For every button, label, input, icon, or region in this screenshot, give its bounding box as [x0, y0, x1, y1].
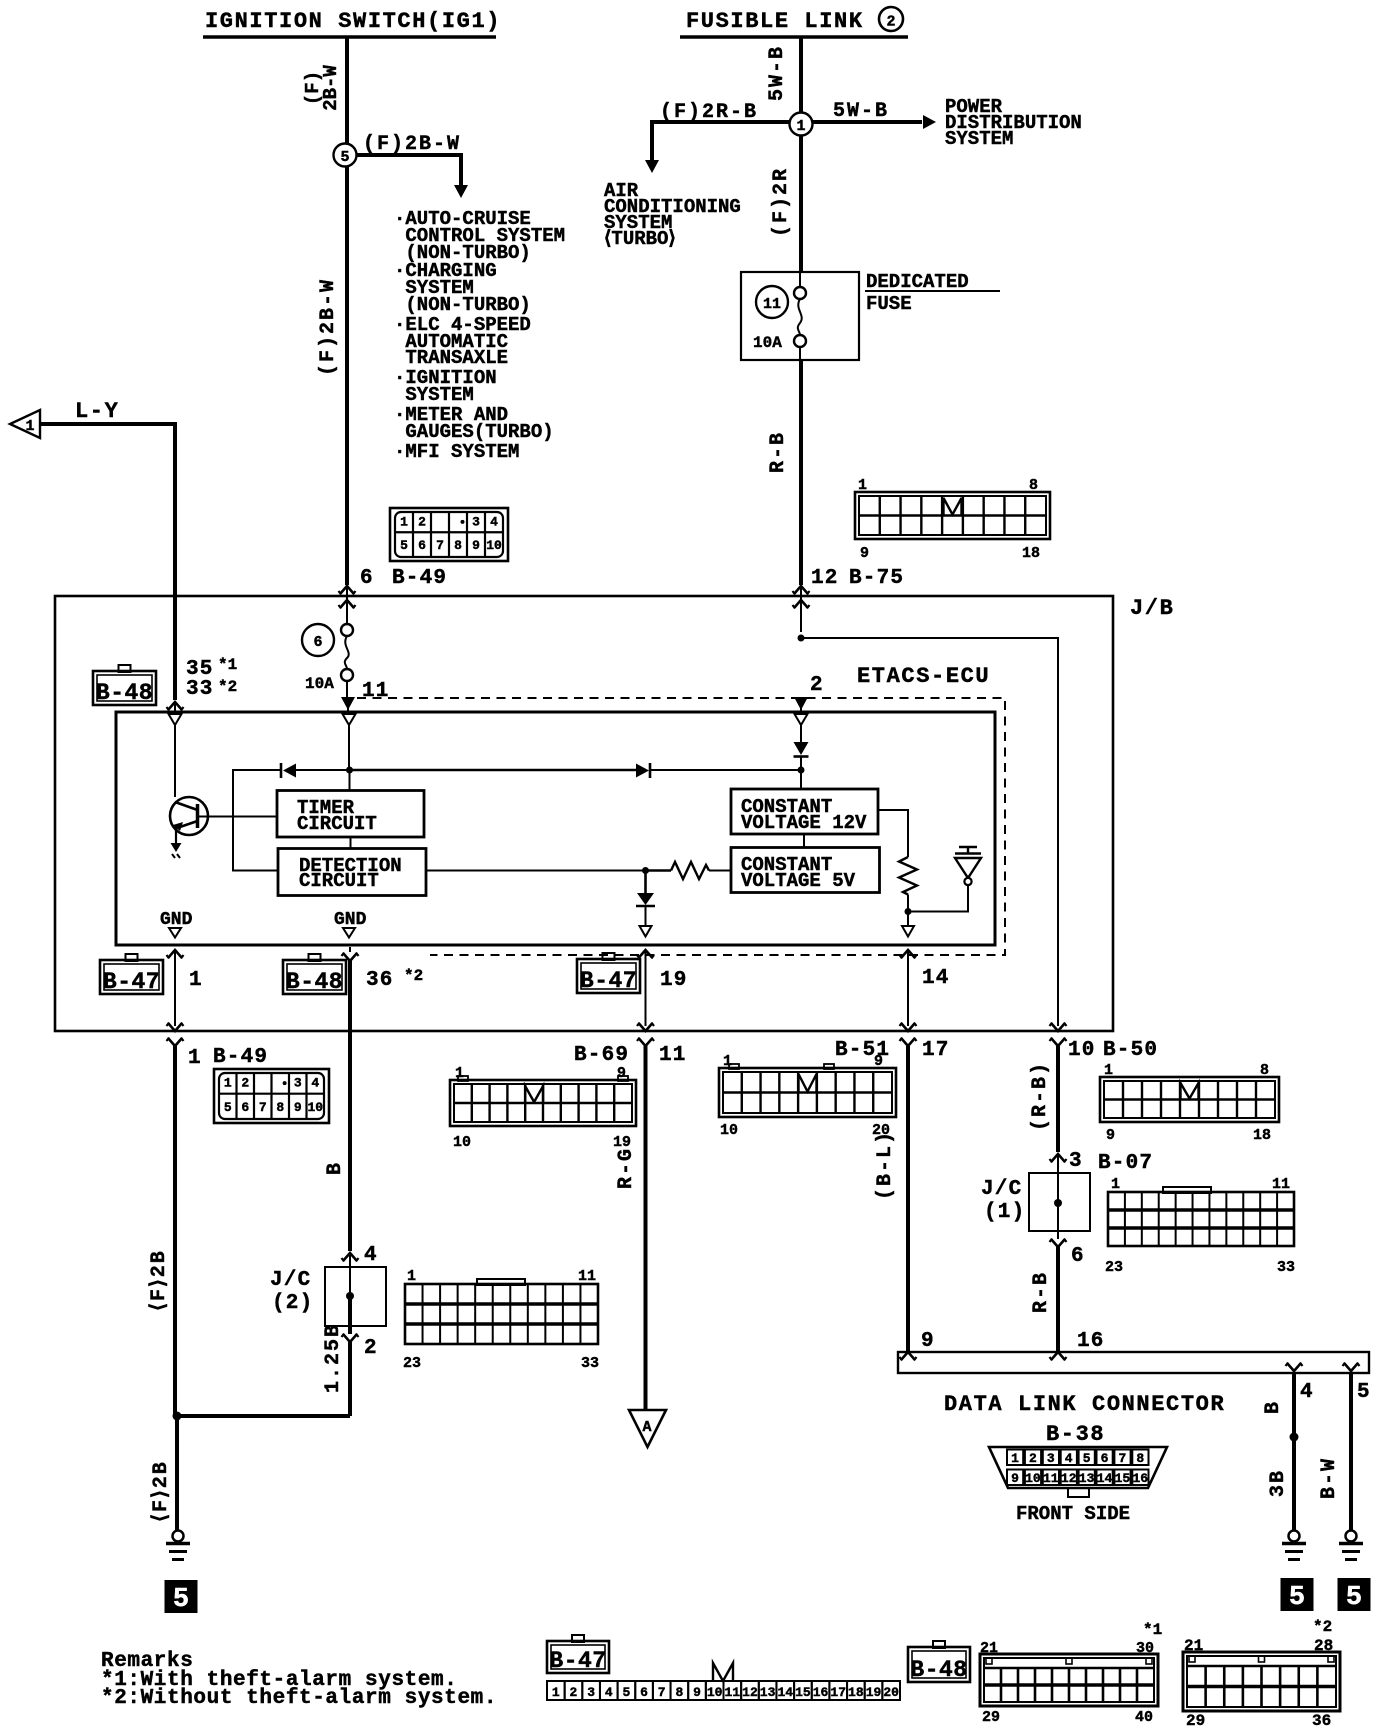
svg-text:8: 8	[1136, 1451, 1144, 1466]
node IGNITION SWITCH(IG1)	[203, 9, 501, 37]
label <F>2B vertical 2	[150, 1460, 173, 1522]
ground icon B-47 left	[100, 954, 163, 995]
svg-text:SYSTEM: SYSTEM	[945, 128, 1013, 150]
svg-text:4: 4	[364, 1244, 378, 1267]
svg-text:L-Y: L-Y	[75, 399, 119, 424]
svg-text:15: 15	[795, 1685, 811, 1700]
pin labels B-51	[720, 1053, 890, 1139]
svg-text:B-47: B-47	[103, 969, 160, 995]
svg-text:·MFI SYSTEM: ·MFI SYSTEM	[394, 441, 519, 463]
label system list	[394, 208, 565, 463]
svg-text:40: 40	[1135, 1709, 1153, 1726]
svg-text:⟨F⟩2B: ⟨F⟩2B	[148, 1249, 171, 1311]
wire R-B	[799, 360, 803, 585]
pin labels B-07	[1105, 1176, 1295, 1276]
svg-text:2: 2	[810, 674, 824, 697]
svg-text:11: 11	[763, 296, 781, 313]
svg-text:8: 8	[1260, 1062, 1269, 1079]
transistor Q1	[170, 797, 277, 858]
svg-text:7: 7	[658, 1685, 666, 1700]
svg-text:B-69: B-69	[574, 1044, 629, 1067]
detection circuit box	[278, 849, 426, 896]
ETACS-ECU inner box	[116, 712, 995, 945]
svg-text:9: 9	[860, 545, 869, 562]
svg-text:19: 19	[660, 969, 688, 992]
label 6 B-49	[360, 567, 447, 590]
svg-text:(2): (2)	[272, 1292, 313, 1315]
label pin 35/33	[186, 656, 237, 701]
svg-text:B-W: B-W	[1318, 1457, 1341, 1499]
svg-text:12: 12	[1061, 1471, 1077, 1486]
label pin 11	[362, 680, 390, 703]
svg-text:29: 29	[1186, 1712, 1205, 1730]
svg-text:5: 5	[1346, 1583, 1362, 1613]
terminal 5 DLC	[1343, 1363, 1360, 1371]
label (F) 2B-W vertical	[302, 65, 342, 111]
svg-text:1.25B: 1.25B	[322, 1323, 345, 1393]
svg-text:5: 5	[173, 1585, 189, 1615]
connector B-50 pictogram	[1100, 1077, 1279, 1122]
timer circuit box	[277, 791, 424, 838]
wire (F)2B-W ignition feed	[345, 37, 349, 585]
svg-text:VOLTAGE 5V: VOLTAGE 5V	[741, 870, 856, 892]
svg-text:23: 23	[403, 1355, 421, 1372]
pin labels *1	[980, 1621, 1162, 1726]
svg-text:1: 1	[796, 118, 805, 135]
svg-text:J/C: J/C	[981, 1178, 1022, 1201]
svg-text:B-49: B-49	[392, 567, 447, 590]
svg-text:6: 6	[360, 567, 374, 590]
svg-text:R-B: R-B	[767, 431, 790, 473]
svg-text:14: 14	[922, 967, 950, 990]
svg-text:B-48: B-48	[286, 969, 343, 995]
svg-text:1: 1	[407, 1268, 416, 1285]
svg-text:2: 2	[1029, 1451, 1037, 1466]
connector B-08 pictogram	[405, 1279, 598, 1344]
svg-text:4: 4	[1065, 1451, 1073, 1466]
svg-text:ETACS-ECU: ETACS-ECU	[857, 664, 990, 689]
label DATA LINK CONNECTOR	[944, 1392, 1225, 1417]
svg-text:9: 9	[617, 1065, 626, 1082]
svg-text:B-48: B-48	[96, 680, 153, 706]
label ETACS-ECU	[857, 664, 990, 689]
svg-text:20: 20	[883, 1685, 899, 1700]
terminal pin1	[167, 950, 184, 1026]
connector B-07 pictogram	[1108, 1187, 1294, 1246]
svg-text:FUSE: FUSE	[866, 293, 912, 315]
label (B-L) vertical	[874, 1130, 897, 1200]
terminal 17 B-51	[900, 1023, 917, 1352]
label pin 2	[810, 674, 824, 697]
svg-text:18: 18	[1253, 1127, 1271, 1144]
wire cv12 to R2	[878, 810, 908, 857]
svg-text:5: 5	[622, 1685, 630, 1700]
terminal 11 B-69	[637, 1023, 654, 1410]
svg-text:*2: *2	[1313, 1618, 1332, 1636]
label 3 B-07	[1069, 1150, 1153, 1175]
connector B-49 upper pictogram	[390, 508, 508, 561]
junction dot det	[642, 867, 649, 874]
wire timer-detection	[350, 837, 352, 849]
svg-text:B-50: B-50	[1103, 1039, 1158, 1062]
junction dot pin11	[346, 767, 353, 791]
label 1.25B vertical	[322, 1323, 345, 1393]
connector B-51 pictogram	[719, 1064, 896, 1117]
svg-text:10: 10	[1068, 1039, 1096, 1062]
resistor R2	[899, 857, 917, 912]
ground icon B-47 mid	[577, 953, 640, 994]
svg-text:1: 1	[858, 477, 867, 494]
pin triangle 14	[902, 926, 914, 937]
terminal 6 J/C1	[1050, 1231, 1067, 1352]
wire internal bus	[233, 770, 281, 871]
terminal 2 J/C2	[342, 1326, 359, 1416]
svg-text:18: 18	[1022, 545, 1040, 562]
terminal pin19	[637, 950, 654, 1026]
label B vertical 2	[1262, 1400, 1285, 1414]
wire 1.25B joint	[177, 1414, 350, 1418]
pin labels B-75	[858, 477, 1040, 562]
svg-text:14: 14	[1097, 1471, 1113, 1486]
svg-text:B-47: B-47	[580, 968, 637, 994]
svg-text:2: 2	[418, 514, 426, 529]
label pin 19	[660, 969, 688, 992]
svg-text:6: 6	[313, 634, 322, 651]
svg-text:13: 13	[1079, 1471, 1095, 1486]
ground right 2	[1339, 1531, 1363, 1560]
terminal 3 B-07	[1050, 1154, 1067, 1173]
svg-text:5: 5	[1083, 1451, 1091, 1466]
label (F)2R vertical	[770, 167, 793, 237]
ground id 5 right 1	[1281, 1578, 1314, 1613]
wire 5W-B to power dist	[812, 115, 936, 129]
svg-text:DEDICATED: DEDICATED	[866, 271, 969, 293]
wire DLC 5	[1349, 1373, 1353, 1530]
svg-text:7: 7	[259, 1100, 267, 1115]
label R-G vertical	[615, 1147, 638, 1189]
svg-text:28: 28	[1314, 1637, 1333, 1655]
svg-text:4: 4	[1300, 1381, 1314, 1404]
fuse number 6	[302, 624, 334, 656]
svg-text:*2: *2	[404, 967, 423, 985]
label 3B vertical	[1267, 1469, 1290, 1497]
svg-text:3: 3	[472, 514, 480, 529]
ground icon B-48 lower	[283, 954, 346, 995]
svg-text:9: 9	[921, 1330, 935, 1353]
connector strip B-47 pictogram	[547, 1663, 900, 1700]
svg-text:8: 8	[276, 1100, 284, 1115]
svg-text:B-75: B-75	[849, 567, 904, 590]
svg-text:4: 4	[490, 514, 498, 529]
svg-text:16: 16	[813, 1685, 829, 1700]
label (F)2B-W vertical 2	[317, 278, 340, 376]
svg-text:A: A	[642, 1419, 651, 1436]
svg-text:11: 11	[578, 1268, 596, 1285]
svg-text:23: 23	[1105, 1259, 1123, 1276]
svg-text:3: 3	[1069, 1150, 1083, 1173]
label 12 B-75	[811, 567, 904, 590]
svg-text:36: 36	[1312, 1712, 1331, 1730]
node FUSIBLE LINK 2	[680, 7, 908, 37]
pin labels B-69	[453, 1065, 631, 1151]
svg-text:TRANSAXLE: TRANSAXLE	[394, 347, 508, 369]
svg-text:R-G: R-G	[615, 1147, 638, 1189]
svg-text:30: 30	[1136, 1640, 1154, 1657]
junction dot jb	[798, 635, 805, 642]
svg-text:B: B	[324, 1161, 347, 1175]
label (F)2R-B	[660, 101, 758, 124]
svg-text:5W-B: 5W-B	[833, 100, 889, 123]
svg-text:9: 9	[294, 1100, 302, 1115]
svg-text:10A: 10A	[305, 675, 334, 693]
wire L-Y	[40, 424, 175, 700]
pin triangle 2	[795, 714, 808, 742]
svg-text:3: 3	[1047, 1451, 1055, 1466]
constant voltage 5V box	[731, 848, 880, 893]
svg-text:7: 7	[1118, 1451, 1126, 1466]
ground icon B-48 bottom	[908, 1641, 970, 1683]
label B vertical	[324, 1161, 347, 1175]
label B-W vertical	[1318, 1457, 1341, 1499]
resistor R1	[646, 862, 732, 879]
label 4	[364, 1244, 378, 1267]
terminal 12 into J/B	[793, 586, 810, 632]
svg-text:1: 1	[400, 514, 408, 529]
svg-text:12: 12	[742, 1685, 758, 1700]
label 5W-B	[833, 100, 889, 123]
terminal 16 DLC	[1050, 1352, 1067, 1360]
svg-text:IGNITION SWITCH(IG1): IGNITION SWITCH(IG1)	[205, 9, 501, 34]
svg-text:2: 2	[886, 14, 895, 31]
connector B-75 pictogram	[855, 492, 1050, 539]
label 10A fuse6	[305, 675, 334, 693]
ground icon B-48 upper	[93, 665, 156, 706]
svg-text:4: 4	[311, 1076, 319, 1091]
junction dot 2B	[173, 1412, 182, 1421]
ground left	[166, 1531, 190, 1560]
svg-text:B-48: B-48	[910, 1657, 967, 1683]
pin arrow 2	[794, 697, 808, 712]
svg-text:5: 5	[340, 149, 349, 166]
svg-text:B-49: B-49	[213, 1046, 268, 1069]
label J/C (1)	[981, 1178, 1025, 1224]
svg-text:B-38: B-38	[1046, 1422, 1105, 1447]
fuse number 11	[756, 286, 788, 318]
label 4 5	[1300, 1381, 1371, 1404]
diode D3 pin2	[794, 742, 809, 770]
svg-text:FRONT SIDE: FRONT SIDE	[1016, 1503, 1130, 1525]
svg-text:10: 10	[486, 538, 502, 553]
svg-text:10: 10	[1025, 1471, 1041, 1486]
gnd label 36	[334, 910, 367, 938]
terminal 35/33 into ECU	[167, 702, 184, 713]
zener D5	[910, 847, 981, 912]
svg-text:FUSIBLE LINK: FUSIBLE LINK	[686, 9, 864, 34]
label B-51 17	[835, 1039, 950, 1062]
label 10 B-50	[1068, 1039, 1158, 1062]
svg-text:5: 5	[224, 1100, 232, 1115]
svg-text:GAUGES(TURBO): GAUGES(TURBO)	[394, 421, 554, 443]
label J/B	[1130, 596, 1174, 621]
svg-text:21: 21	[1184, 1637, 1203, 1655]
node AIR CONDITIONING SYSTEM	[604, 180, 741, 250]
pin labels B-50	[1104, 1062, 1271, 1144]
wire cv12-cv5	[803, 834, 805, 848]
label pin 36	[366, 967, 423, 992]
svg-text:(F)2B-W: (F)2B-W	[317, 278, 340, 376]
terminal pin14	[900, 950, 917, 1026]
label (F)2B-W	[363, 133, 461, 156]
diode D1 left	[281, 763, 350, 778]
svg-text:*2: *2	[218, 678, 237, 696]
svg-text:CIRCUIT: CIRCUIT	[297, 813, 377, 835]
svg-text:*1: *1	[218, 656, 237, 674]
wire jb right feed	[801, 638, 1058, 1026]
label DEDICATED FUSE	[865, 271, 1000, 315]
diode D2 right	[636, 763, 801, 778]
connector B-38 pictogram	[989, 1447, 1167, 1497]
svg-text:5W-B: 5W-B	[766, 45, 789, 101]
svg-text:29: 29	[982, 1709, 1000, 1726]
svg-text:33: 33	[1277, 1259, 1295, 1276]
pin triangle 19	[640, 926, 652, 937]
label pin 14	[922, 967, 950, 990]
terminal 4 J/C2	[342, 1253, 359, 1267]
label 2	[364, 1337, 378, 1360]
svg-text:R-B: R-B	[1030, 1271, 1053, 1313]
svg-text:1: 1	[723, 1053, 732, 1070]
svg-text:⟨TURBO⟩: ⟨TURBO⟩	[604, 228, 676, 250]
wire DLC 4	[1290, 1373, 1299, 1530]
wire 5W-B	[799, 37, 803, 272]
terminal 6 into J/B	[339, 586, 356, 624]
svg-text:19: 19	[866, 1685, 882, 1700]
svg-text:11: 11	[659, 1044, 687, 1067]
terminal pin36	[342, 947, 359, 961]
constant voltage 12V box	[731, 789, 878, 834]
svg-text:18: 18	[848, 1685, 864, 1700]
svg-text:J/C: J/C	[270, 1269, 311, 1292]
label R-B vertical	[767, 431, 790, 473]
connector B-69 pictogram	[450, 1076, 636, 1126]
label B-38	[1046, 1422, 1105, 1447]
svg-text:(F)2R: (F)2R	[770, 167, 793, 237]
label <F>2B vertical	[148, 1249, 171, 1311]
svg-text:2: 2	[570, 1685, 578, 1700]
svg-text:10: 10	[453, 1134, 471, 1151]
svg-text:13: 13	[760, 1685, 776, 1700]
svg-text:2: 2	[241, 1076, 249, 1091]
svg-text:9: 9	[1106, 1127, 1115, 1144]
svg-text:12: 12	[811, 567, 839, 590]
fuse box dedicated	[741, 272, 859, 360]
svg-text:1: 1	[188, 1047, 202, 1070]
svg-text:6: 6	[241, 1100, 249, 1115]
svg-text:3B: 3B	[1267, 1469, 1290, 1497]
svg-text:8: 8	[675, 1685, 683, 1700]
pin labels *2	[1184, 1618, 1333, 1730]
svg-text:33: 33	[186, 678, 214, 701]
svg-text:(F)2B-W: (F)2B-W	[363, 133, 461, 156]
junction 1	[790, 113, 813, 136]
svg-text:16: 16	[1077, 1330, 1105, 1353]
svg-text:6: 6	[640, 1685, 648, 1700]
svg-text:21: 21	[980, 1640, 998, 1657]
svg-text:CIRCUIT: CIRCUIT	[299, 870, 379, 892]
label R-B vertical 2	[1030, 1271, 1053, 1313]
svg-text:SYSTEM: SYSTEM	[394, 384, 474, 406]
svg-text:10: 10	[707, 1685, 723, 1700]
svg-text:1: 1	[1011, 1451, 1019, 1466]
node A arrow	[629, 1410, 666, 1447]
svg-text:15: 15	[1115, 1471, 1131, 1486]
svg-text:(R-B): (R-B)	[1029, 1061, 1052, 1131]
junction block J/B	[55, 596, 1113, 1031]
data link connector box	[898, 1352, 1369, 1373]
svg-text:6: 6	[418, 538, 426, 553]
svg-text:1: 1	[552, 1685, 560, 1700]
junction dot pin2	[798, 767, 805, 790]
svg-text:11: 11	[1272, 1176, 1290, 1193]
svg-text:8: 8	[1029, 477, 1038, 494]
svg-text:B-47: B-47	[549, 1648, 606, 1674]
svg-text:5: 5	[1357, 1381, 1371, 1404]
svg-text:3: 3	[587, 1685, 595, 1700]
svg-text:14: 14	[777, 1685, 793, 1700]
pin labels B-08	[403, 1268, 599, 1372]
junction 5	[334, 144, 357, 167]
wire pin36 B	[348, 960, 352, 1251]
label J/C (2)	[270, 1269, 313, 1315]
gnd label 1	[160, 910, 193, 938]
svg-text:J/B: J/B	[1130, 596, 1174, 621]
svg-text:9: 9	[472, 538, 480, 553]
label remarks	[101, 1650, 497, 1710]
svg-text:11: 11	[362, 680, 390, 703]
svg-text:33: 33	[581, 1355, 599, 1372]
svg-text:8: 8	[454, 538, 462, 553]
svg-text:1: 1	[189, 969, 203, 992]
label pin 1	[189, 969, 203, 992]
fuse element 6	[341, 624, 353, 699]
ground id 5 right 2	[1338, 1578, 1371, 1613]
pin arrow 11	[341, 697, 355, 712]
wire to ground left	[175, 1416, 179, 1530]
ground icon B-47 bottom	[547, 1635, 609, 1674]
terminal 10 B-50	[1050, 1023, 1067, 1152]
svg-text:(NON-TURBO): (NON-TURBO)	[394, 294, 531, 316]
ground id 5 left	[165, 1580, 198, 1615]
node 1 triangle L-Y	[10, 410, 40, 438]
connector *2 pictogram	[1183, 1652, 1340, 1711]
svg-text:(B-L): (B-L)	[874, 1130, 897, 1200]
svg-text:⟨F⟩2B: ⟨F⟩2B	[150, 1460, 173, 1522]
label 9 16	[921, 1330, 1105, 1353]
fuse element 11	[794, 272, 806, 360]
svg-text:1: 1	[1104, 1062, 1113, 1079]
svg-text:1: 1	[455, 1065, 464, 1082]
terminal 1 B-49	[167, 1023, 184, 1416]
connector B-49 lower pictogram	[214, 1069, 329, 1123]
svg-text:6: 6	[1101, 1451, 1109, 1466]
connector *1 pictogram	[980, 1654, 1158, 1706]
node POWER DISTRIBUTION SYSTEM	[945, 96, 1082, 150]
svg-text:36: 36	[366, 969, 394, 992]
wire diode row	[350, 769, 637, 771]
svg-text:5: 5	[1289, 1583, 1305, 1613]
label FRONT SIDE	[1016, 1503, 1130, 1525]
svg-text:11: 11	[724, 1685, 740, 1700]
